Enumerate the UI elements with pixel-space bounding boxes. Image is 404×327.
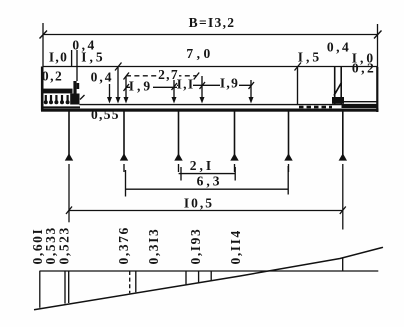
tick right B: [374, 31, 382, 39]
svg-text:0,523: 0,523: [57, 226, 72, 264]
wedge vertical x=135.8: [135, 271, 137, 292]
left footway top bar: [41, 89, 73, 94]
tick at 174: [172, 83, 178, 90]
pile 1: [68, 112, 70, 157]
svg-text:0,2: 0,2: [352, 61, 376, 76]
deck left edge thick bar: [41, 67, 44, 111]
dimension line row2: [43, 66, 378, 68]
svg-text:B=I3,2: B=I3,2: [189, 15, 236, 30]
right post hatch diagonal: [334, 83, 342, 96]
wedge left edge: [39, 271, 41, 308]
right post foot bar: [332, 97, 344, 104]
pile 6: [342, 112, 344, 157]
svg-text:I,0: I,0: [49, 50, 68, 65]
wedge tick x=342.7: [342, 258, 344, 271]
wedge top line: [40, 270, 379, 272]
extension ticks under left 0,4 label: [71, 50, 73, 67]
svg-text:0,I93: 0,I93: [188, 228, 203, 265]
wedge vertical x=198.6: [198, 271, 200, 282]
svg-text:0,55: 0,55: [91, 107, 120, 122]
tick at 251: [249, 82, 255, 89]
beam extension x=109.5 with arrow: [109, 84, 111, 101]
wedge vertical x=211.2: [210, 271, 212, 280]
label 1,9 left: [129, 79, 153, 94]
right deck edge: [376, 67, 378, 112]
deck bottom slab band: [41, 109, 379, 112]
svg-text:2,I: 2,I: [190, 158, 214, 173]
tick row2 at x=297.5: [295, 63, 302, 71]
extension line right x=377.5: [377, 24, 379, 67]
right footway hatch dashes: [299, 106, 332, 109]
left kerb post: [73, 81, 76, 94]
wedge vertical double b: [68, 271, 70, 303]
beam extension x=202 with arrow: [201, 76, 203, 101]
pile 5: [288, 112, 290, 157]
right footway dark band: [342, 104, 378, 108]
wedge slope line: [34, 247, 383, 309]
right footway boundary x=297.5: [297, 67, 299, 105]
svg-text:I,I: I,I: [177, 77, 195, 92]
tick row2 at x=118: [115, 63, 122, 71]
svg-text:I,9: I,9: [129, 79, 153, 94]
pile 4: [234, 112, 236, 157]
wedge vertical dashed: [129, 271, 131, 293]
dimension line 1,1 / 1,9 right: [177, 84, 251, 86]
svg-text:0,3I3: 0,3I3: [146, 228, 161, 265]
wedge vertical double a: [64, 271, 66, 304]
right footway top edge: [342, 101, 378, 103]
extension line left x=43: [42, 23, 44, 67]
roadway surface line: [80, 104, 378, 106]
tick 2,7 left: [124, 73, 130, 80]
svg-text:0,4: 0,4: [327, 40, 351, 55]
left kerb post flag: [77, 83, 80, 89]
pile 2: [123, 112, 125, 157]
tick at 202: [200, 82, 206, 89]
svg-text:6,3: 6,3: [197, 174, 223, 189]
kerb base slash: [80, 95, 85, 100]
svg-text:I0,5: I0,5: [184, 195, 214, 210]
beam extension x=118 with arrow: [117, 67, 119, 102]
svg-text:0,II4: 0,II4: [228, 229, 243, 264]
beam extension x=174 with arrow: [173, 80, 175, 101]
tick 1,9L left: [124, 84, 130, 91]
svg-text:0,2: 0,2: [42, 69, 63, 84]
tick 10,5 left: [66, 207, 72, 215]
svg-text:0,376: 0,376: [116, 226, 131, 264]
wedge vertical x=186: [185, 271, 187, 284]
tick left B: [40, 31, 48, 39]
left kerb block: [70, 94, 79, 105]
label 2,7: [158, 67, 179, 82]
svg-text:I,9: I,9: [220, 76, 239, 91]
dimension line B=13,2: [43, 34, 378, 36]
dimension line 10,5: [69, 210, 343, 212]
tick 10,5 right: [340, 207, 346, 215]
pile 3: [178, 112, 180, 157]
footway bottom line: [42, 106, 80, 108]
beam extension x=251 with arrow: [250, 80, 252, 101]
dimension line 6,3: [126, 188, 289, 190]
svg-text:7,0: 7,0: [186, 46, 213, 61]
dimension line 2,1: [179, 173, 236, 175]
footway hatch strokes: [46, 95, 68, 104]
right railing post: [334, 67, 336, 105]
svg-text:I,5: I,5: [81, 50, 105, 65]
beam extension x=126 with arrow: [125, 76, 127, 101]
svg-text:0,4: 0,4: [91, 70, 114, 85]
label 1,1: [177, 77, 195, 92]
label 1,9 right: [220, 76, 239, 91]
dimension line 1,9 left: [126, 86, 177, 88]
dimension line 2,7 dashed: [126, 75, 196, 77]
tick 2,7 right: [194, 73, 200, 80]
svg-text:I,5: I,5: [298, 50, 322, 65]
